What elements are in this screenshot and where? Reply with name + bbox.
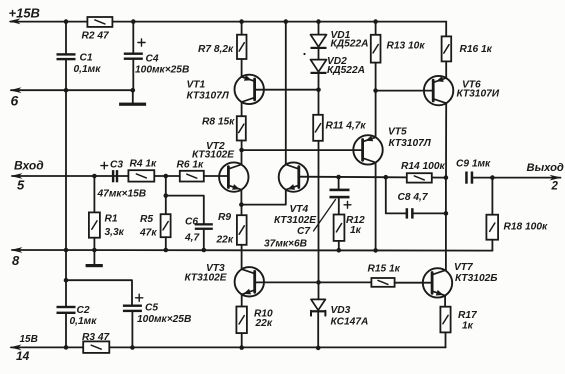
polarity + (C3) bbox=[101, 162, 108, 169]
junction ground line / R5 bbox=[164, 248, 169, 253]
junction input / R1 bbox=[92, 174, 97, 179]
wire common column mid bbox=[65, 90, 67, 250]
svg-text:22к: 22к bbox=[255, 318, 273, 329]
svg-text:R3 47: R3 47 bbox=[82, 332, 111, 343]
transistor VT6 bbox=[424, 76, 453, 105]
value 0,1мк (C1) bbox=[74, 64, 102, 75]
svg-text:R14 100к: R14 100к bbox=[401, 161, 446, 172]
wire top rail corner to R16 bbox=[445, 22, 447, 37]
label Выход bbox=[527, 162, 564, 174]
value 4,7 (C6) bbox=[184, 232, 200, 243]
ground symbol (C4) bbox=[119, 103, 146, 106]
svg-text:R2 47: R2 47 bbox=[82, 30, 111, 41]
junction input / R5 bbox=[164, 174, 169, 179]
label C9 1мк bbox=[456, 158, 491, 169]
svg-text:C4: C4 bbox=[146, 54, 159, 65]
value 37мк×6В (C7) bbox=[264, 238, 307, 249]
label R16 1к bbox=[460, 44, 493, 55]
value 22к (R10) bbox=[255, 318, 273, 329]
resistor R12 bbox=[334, 215, 345, 241]
junction bias line / VD3 bbox=[316, 280, 321, 285]
label VD3 bbox=[331, 305, 351, 316]
resistor R2 bbox=[87, 17, 112, 27]
wire R11 to bias line bbox=[318, 141, 320, 300]
svg-text:C1: C1 bbox=[80, 53, 93, 64]
svg-text:C6: C6 bbox=[185, 217, 198, 228]
svg-text:VT5: VT5 bbox=[388, 126, 407, 137]
transistor VT1 bbox=[235, 75, 264, 104]
capacitor C6 bbox=[195, 223, 213, 230]
pin number 8 bbox=[12, 253, 20, 268]
wire VT4 base line bbox=[299, 176, 446, 179]
svg-text:15В: 15В bbox=[20, 334, 38, 345]
svg-text:4,7: 4,7 bbox=[184, 232, 200, 243]
wire +15V top rail bbox=[11, 21, 447, 23]
svg-text:VD3: VD3 bbox=[331, 305, 351, 316]
junction feedback node / C8 / R14 bbox=[384, 175, 389, 180]
label R11 4,7к bbox=[326, 121, 367, 132]
junction output node bbox=[444, 175, 449, 180]
junction ground line / C6 bbox=[202, 248, 207, 253]
zener bar hooks VD3 bbox=[311, 311, 325, 316]
resistor R4 bbox=[128, 170, 154, 181]
resistor R15 bbox=[371, 278, 394, 287]
wire VD2 to base node bbox=[318, 74, 320, 115]
svg-text:КД522А: КД522А bbox=[327, 65, 365, 76]
junction common column / ground line bbox=[64, 248, 69, 253]
label C8 4,7 bbox=[398, 192, 429, 203]
svg-text:C5: C5 bbox=[145, 303, 158, 314]
type КД522А (VD2) bbox=[327, 65, 365, 76]
label R9 bbox=[218, 212, 231, 223]
label VT3 bbox=[206, 263, 225, 274]
label VT4 bbox=[290, 204, 309, 215]
type КТ3102Е (VT2) bbox=[192, 150, 235, 161]
type КТ3102Е (VT3) bbox=[185, 272, 228, 283]
svg-text:C9 1мк: C9 1мк bbox=[456, 158, 491, 169]
label R3 47 bbox=[82, 332, 111, 343]
wire C9 to output terminal bbox=[473, 177, 560, 179]
svg-text:1к: 1к bbox=[350, 225, 362, 236]
junction output column / C8 bbox=[444, 211, 449, 216]
polarity + (C5) bbox=[136, 294, 143, 301]
svg-text:+15В: +15В bbox=[9, 6, 40, 21]
svg-text:0,1мк: 0,1мк bbox=[74, 64, 102, 75]
junction bottom rail / C5 bbox=[130, 345, 135, 350]
svg-text:0,1мк: 0,1мк bbox=[70, 316, 98, 327]
svg-text:Выход: Выход bbox=[527, 162, 564, 174]
label C1 bbox=[80, 53, 93, 64]
capacitor C1 bbox=[57, 53, 76, 60]
diode VD1 bbox=[311, 35, 327, 49]
label R13 10к bbox=[387, 41, 426, 52]
junction bottom rail / VD3 bbox=[316, 346, 321, 351]
transistor VT3 bbox=[235, 267, 264, 296]
value 47к (R5) bbox=[139, 227, 157, 238]
pin number 6 bbox=[11, 92, 19, 108]
label R15 1к bbox=[368, 264, 401, 275]
resistor R8 bbox=[237, 116, 246, 140]
svg-text:5: 5 bbox=[17, 178, 25, 193]
svg-text:КТ3107Л: КТ3107Л bbox=[389, 138, 432, 149]
wire VD1 top lead bbox=[318, 22, 320, 35]
junction R5 / C6 bbox=[164, 193, 169, 198]
svg-text:3,3к: 3,3к bbox=[105, 227, 125, 238]
wire VT2 collector bbox=[241, 150, 243, 165]
svg-text:КТ3107И: КТ3107И bbox=[457, 89, 500, 100]
label R6 1к bbox=[177, 160, 205, 171]
svg-text:R5: R5 bbox=[140, 214, 153, 225]
svg-text:C3: C3 bbox=[110, 159, 123, 170]
wire VT6 collector to output node bbox=[445, 103, 447, 177]
value 22к (R9) bbox=[216, 235, 234, 246]
svg-text:R7 8,2к: R7 8,2к bbox=[198, 44, 234, 55]
wire R18 top lead bbox=[491, 178, 493, 215]
transistor VT4 bbox=[279, 162, 308, 191]
junction feedback node / C7 bbox=[336, 175, 341, 180]
wire VT4 collector to +15V bbox=[285, 22, 287, 165]
value 1к (R17) bbox=[462, 321, 474, 332]
wire R1 bottom lead bbox=[93, 238, 95, 264]
value R2 47 bbox=[82, 30, 111, 41]
resistor R3 bbox=[83, 341, 109, 353]
svg-text:КТ3102Е: КТ3102Е bbox=[192, 150, 235, 161]
svg-text:КТ3102Е: КТ3102Е bbox=[185, 272, 228, 283]
wire VD3 bottom lead bbox=[317, 312, 319, 348]
wire VT2 emitter bbox=[240, 190, 242, 205]
resistor R6 bbox=[180, 171, 204, 182]
svg-text:R6 1к: R6 1к bbox=[177, 160, 205, 171]
capacitor C2 bbox=[57, 306, 76, 314]
svg-text:C8 4,7: C8 4,7 bbox=[398, 192, 429, 203]
type КС147А (VD3) bbox=[331, 316, 369, 327]
svg-text:VT4: VT4 bbox=[290, 204, 309, 215]
svg-text:КС147А: КС147А bbox=[331, 316, 369, 327]
wire C4 top lead bbox=[132, 22, 134, 53]
pin number 2 bbox=[551, 181, 559, 193]
wire input line bbox=[12, 175, 228, 177]
wire R10 bottom lead bbox=[241, 333, 243, 348]
junction output / R18 bbox=[490, 175, 495, 180]
wire C7 top lead bbox=[338, 177, 340, 189]
wire VT6 base bbox=[376, 90, 434, 92]
svg-text:R11 4,7к: R11 4,7к bbox=[326, 121, 367, 132]
svg-text:14: 14 bbox=[16, 349, 30, 363]
polarity + (C4) bbox=[138, 39, 145, 46]
value 1к (R12) bbox=[350, 225, 362, 236]
value 0,1мк (C2) bbox=[70, 316, 98, 327]
wire R18 bottom lead bbox=[491, 240, 493, 251]
svg-text:47мк×15В: 47мк×15В bbox=[97, 189, 147, 200]
junction top rail / R7 bbox=[239, 19, 244, 24]
label VT7 bbox=[454, 262, 474, 273]
label R1 bbox=[105, 214, 118, 225]
polarity + (C7) bbox=[344, 201, 351, 208]
svg-text:47к: 47к bbox=[139, 227, 157, 238]
svg-text:VT1: VT1 bbox=[187, 80, 206, 91]
resistor R16 bbox=[442, 36, 452, 61]
svg-text:100мк×25В: 100мк×25В bbox=[137, 314, 191, 325]
wire C5 link bbox=[66, 280, 132, 304]
junction VT1 base / VD2 / R11 bbox=[316, 87, 321, 92]
junction top rail / C4 bbox=[131, 19, 136, 24]
wire R12 bottom lead bbox=[338, 241, 340, 250]
terminal arrow +15V bbox=[9, 18, 21, 24]
label R5 bbox=[140, 214, 153, 225]
wire R5 bottom lead bbox=[165, 237, 167, 250]
capacitor C7 bbox=[330, 189, 350, 199]
type КТ3107Л (VT5) bbox=[389, 138, 432, 149]
ground symbol (R1) bbox=[86, 264, 103, 267]
type КТ3107Л (VT1) bbox=[187, 91, 230, 102]
junction emitters VT2/VT4 bbox=[239, 202, 244, 207]
terminal arrow 8 bbox=[11, 247, 23, 253]
leader line C7 bbox=[314, 200, 336, 232]
wire VD1-VD2 link bbox=[318, 49, 320, 60]
capacitor C5 bbox=[123, 305, 142, 313]
label C4 bbox=[146, 54, 159, 65]
label R17 bbox=[458, 310, 478, 321]
wire R16 to VT6 emitter bbox=[445, 61, 447, 78]
wire R17 to bottom rail bbox=[445, 332, 447, 347]
label VD2 bbox=[327, 56, 347, 67]
junction top rail / VD1 bbox=[316, 19, 321, 24]
label VD1 bbox=[331, 30, 351, 41]
resistor R7 bbox=[237, 35, 247, 59]
value 100мк×25В (C5) bbox=[137, 314, 191, 325]
svg-text:C7: C7 bbox=[297, 226, 311, 237]
svg-text:R18 100к: R18 100к bbox=[504, 222, 549, 233]
terminal arrow output bbox=[550, 175, 562, 181]
capacitor C4 bbox=[124, 53, 143, 60]
svg-text:R13 10к: R13 10к bbox=[387, 41, 426, 52]
label C7 bbox=[297, 226, 311, 237]
wire C6 bottom lead bbox=[203, 230, 205, 250]
label VT6 bbox=[462, 79, 481, 90]
wire C1 top lead bbox=[65, 22, 67, 54]
type КТ3107И (VT6) bbox=[457, 89, 500, 100]
svg-text:R4 1к: R4 1к bbox=[130, 159, 158, 170]
svg-text:2: 2 bbox=[551, 181, 559, 193]
type КТ3102Е (VT4) bbox=[274, 215, 317, 226]
type КТ3102Б (VT7) bbox=[455, 273, 498, 284]
capacitor C9 bbox=[465, 172, 473, 184]
terminal arrow input bbox=[11, 173, 23, 179]
pin number 14 bbox=[16, 349, 30, 363]
label R10 bbox=[254, 308, 273, 319]
wire R13 top lead bbox=[375, 22, 377, 35]
resistor R9 bbox=[237, 215, 247, 245]
wire VT5 collector bbox=[375, 163, 377, 251]
junction VT6 base / R13 column bbox=[373, 88, 378, 93]
label VT1 bbox=[187, 80, 206, 91]
resistor R1 bbox=[89, 212, 100, 237]
label R14 100к bbox=[401, 161, 446, 172]
wire bias line bbox=[255, 281, 372, 283]
label Вход bbox=[14, 159, 44, 173]
svg-text:1к: 1к bbox=[462, 321, 474, 332]
terminal arrow 6 bbox=[10, 87, 22, 93]
wire node to VT5 base bbox=[242, 149, 363, 151]
label C3 bbox=[110, 159, 123, 170]
resistor R11 bbox=[313, 115, 323, 141]
svg-text:8: 8 bbox=[12, 253, 20, 268]
capacitor C3 bbox=[112, 170, 118, 182]
junction rail6 / C4 column bbox=[131, 88, 136, 93]
svg-text:КТ3107Л: КТ3107Л bbox=[187, 91, 230, 102]
terminal arrow -15V bbox=[10, 345, 22, 351]
wire R13 to VT5 emitter bbox=[375, 63, 377, 138]
wire common rail 6 bbox=[11, 89, 133, 91]
wire R9 to VT3 collector bbox=[241, 245, 243, 269]
wire VT7 emitter to R17 bbox=[444, 296, 446, 307]
junction top rail / C1 bbox=[64, 19, 69, 24]
zener diode VD3 bbox=[311, 299, 325, 312]
svg-text:6: 6 bbox=[11, 92, 19, 108]
svg-text:100мк×25В: 100мк×25В bbox=[135, 64, 189, 75]
label VT2 bbox=[206, 141, 225, 152]
junction ground line / R12 bbox=[337, 248, 342, 253]
junction common column / C5 branch bbox=[64, 278, 69, 283]
label VT5 bbox=[388, 126, 407, 137]
wire C8 loop left bbox=[386, 177, 406, 213]
wire R8 to node bbox=[241, 141, 243, 151]
label C2 bbox=[77, 305, 90, 316]
wire bottom rail bbox=[11, 346, 446, 348]
resistor R13 bbox=[371, 35, 381, 63]
junction top rail / VT4 collector bbox=[284, 19, 289, 24]
svg-text:37мк×6В: 37мк×6В bbox=[264, 238, 307, 249]
wire ground line bbox=[12, 249, 492, 252]
svg-text:R15 1к: R15 1к bbox=[368, 264, 401, 275]
wire VT3 emitter to R10 bbox=[241, 294, 243, 306]
label R8 15к bbox=[202, 117, 235, 128]
diode VD2 bbox=[311, 60, 327, 74]
label +15В bbox=[9, 6, 40, 21]
value 3,3к (R1) bbox=[105, 227, 125, 238]
svg-text:R16 1к: R16 1к bbox=[460, 44, 493, 55]
wire R15 to VT7 base bbox=[395, 282, 433, 284]
wire R1 top lead bbox=[93, 176, 95, 212]
label 15В bbox=[20, 334, 38, 345]
junction top rail / R13 bbox=[373, 19, 378, 24]
svg-text:КТ3102Е: КТ3102Е bbox=[274, 215, 317, 226]
label R18 100к bbox=[504, 222, 549, 233]
wire VT1 base bbox=[255, 89, 319, 91]
junction ground line / R1 bbox=[92, 248, 97, 253]
pin number 5 bbox=[17, 178, 25, 193]
value 47мк×15В (C3) bbox=[97, 189, 147, 200]
svg-text:КД522А: КД522А bbox=[331, 39, 369, 50]
svg-text:R9: R9 bbox=[218, 212, 231, 223]
svg-text:КТ3102Б: КТ3102Б bbox=[455, 273, 498, 284]
wire R7 to VT1 emitter bbox=[241, 59, 243, 77]
wire C1 bottom lead bbox=[65, 60, 67, 90]
resistor R18 bbox=[486, 215, 498, 240]
resistor R5 bbox=[161, 214, 171, 237]
wire emitters to R9 bbox=[241, 205, 243, 216]
junction bottom rail / R10 bbox=[239, 345, 244, 350]
wire VT1 collector to R8 bbox=[241, 102, 243, 116]
type КД522А (VD1) bbox=[331, 39, 369, 50]
resistor R17 bbox=[440, 307, 450, 333]
wire emitter link bbox=[241, 190, 285, 205]
svg-text:R8 15к: R8 15к bbox=[202, 117, 235, 128]
wire C6 link bbox=[166, 196, 204, 224]
svg-text:C2: C2 bbox=[77, 305, 90, 316]
junction R8 / VT2 collector / VT5 base bbox=[239, 148, 244, 153]
junction rail6 / C1 column bbox=[64, 88, 69, 93]
wire C2 bottom lead bbox=[65, 314, 67, 347]
wire stub C4 to ground bbox=[132, 90, 134, 102]
value 100мк×25В (C4) bbox=[135, 64, 189, 75]
label C6 bbox=[185, 217, 198, 228]
wire R5 top lead bbox=[165, 176, 167, 214]
junction ground line / VT5 collector bbox=[373, 248, 378, 253]
svg-text:VT7: VT7 bbox=[454, 262, 474, 273]
transistor VT2 bbox=[219, 162, 248, 191]
wire R7 top lead bbox=[241, 22, 243, 35]
capacitor C8 bbox=[406, 208, 414, 218]
label R7 8,2к bbox=[198, 44, 234, 55]
transistor VT5 bbox=[353, 135, 382, 164]
transistor VT7 bbox=[423, 268, 452, 297]
wire C5 bottom lead bbox=[131, 312, 133, 347]
resistor R14 bbox=[407, 173, 432, 182]
wire output column bbox=[445, 178, 447, 271]
label R4 1к bbox=[130, 159, 158, 170]
wire C8 loop right bbox=[414, 212, 446, 214]
svg-text:22к: 22к bbox=[216, 235, 234, 246]
wire common column lower bbox=[65, 250, 67, 306]
svg-text:Вход: Вход bbox=[14, 159, 44, 173]
label C5 bbox=[145, 303, 158, 314]
svg-text:R1: R1 bbox=[105, 214, 118, 225]
svg-text:R17: R17 bbox=[458, 310, 478, 321]
label R12 bbox=[346, 215, 365, 226]
wire C4 bottom lead bbox=[132, 60, 134, 90]
wire C7 to R12 bbox=[338, 198, 340, 214]
junction bottom rail / C2 bbox=[64, 345, 69, 350]
resistor R10 bbox=[236, 307, 247, 334]
